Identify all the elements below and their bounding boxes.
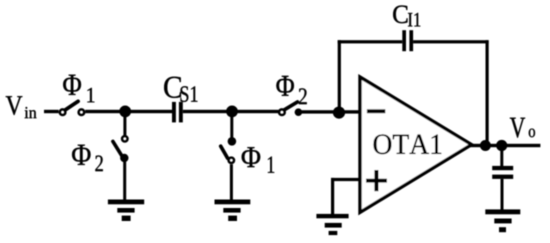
wire shunt switch phi1 to ground: [230, 164, 233, 200]
wire load capacitor to ground: [501, 179, 504, 210]
capacitor load at output: [492, 166, 513, 179]
switch phi1 series (input): [60, 101, 84, 115]
label Vo: [510, 118, 535, 138]
switch phi2 series (second): [279, 102, 302, 116]
capacitor CS1: [172, 102, 183, 123]
node output junction B (load tap): [496, 140, 507, 151]
wire feedback right vertical: [486, 40, 489, 145]
node junction 3 (summing node): [333, 107, 345, 119]
wire opamp plus input to ground: [331, 178, 360, 215]
wire Vin to first switch: [44, 110, 59, 113]
ground 3 (non-inverting input): [316, 214, 348, 235]
wire shunt switch phi2 to ground: [123, 158, 126, 200]
ground 2: [215, 200, 251, 222]
wire switch to CS1: [85, 110, 172, 113]
capacitor CI1: [402, 30, 413, 51]
node output junction A (feedback tap): [480, 140, 491, 151]
wire junction1 to shunt switch phi2: [123, 111, 126, 135]
switch phi1 shunt: [221, 137, 237, 163]
label phi2 (series switch): [276, 76, 306, 104]
label phi1 (shunt switch): [242, 147, 275, 173]
op-amp inverting pin (minus): [367, 109, 385, 113]
label OTA1: [374, 135, 442, 155]
node junction 1: [119, 106, 131, 118]
node junction 2: [226, 106, 238, 118]
op-amp OTA1 triangle: [360, 77, 472, 212]
wire output node to load capacitor: [500, 146, 503, 167]
ground 1: [108, 200, 144, 222]
wire feedback top right: [413, 40, 489, 43]
wire feedback top left: [338, 40, 403, 43]
wire CS1 to series switch phi2: [183, 110, 279, 113]
label Vin: [6, 96, 37, 118]
label CI1: [393, 6, 420, 27]
label phi1 (input series switch): [63, 75, 94, 103]
wire series switch phi2 to opamp inverting input: [298, 110, 360, 113]
label phi2 (shunt switch): [72, 145, 103, 171]
wire opamp output: [470, 144, 540, 147]
wire junction2 to shunt switch phi1: [230, 111, 233, 141]
ground 4 (output): [485, 209, 520, 232]
op-amp non-inverting pin (plus): [366, 170, 387, 191]
label CS1: [164, 77, 197, 102]
wire feedback left vertical: [338, 40, 341, 112]
switch phi2 shunt: [113, 136, 129, 162]
